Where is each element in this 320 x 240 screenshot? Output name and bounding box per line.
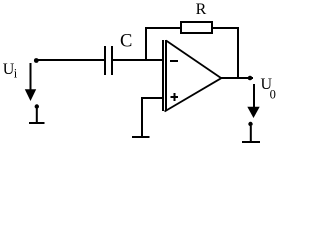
svg-text:R: R (196, 1, 207, 18)
svg-text:i: i (14, 67, 18, 81)
svg-text:C: C (120, 32, 132, 52)
svg-text:0: 0 (270, 88, 276, 102)
